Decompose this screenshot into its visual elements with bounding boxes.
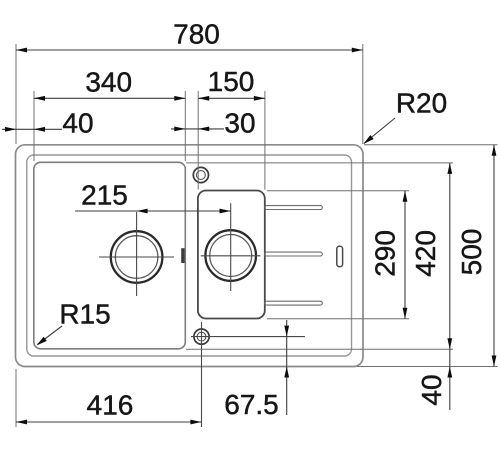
svg-text:215: 215 xyxy=(81,180,128,211)
arrow 416 right xyxy=(190,420,201,425)
arrow 150 right xyxy=(254,96,265,101)
dim line 215 xyxy=(75,210,231,212)
small drain crosshair xyxy=(201,203,261,291)
arrow 67.5 bottom (points up) xyxy=(284,367,289,378)
arrow 780 left xyxy=(16,48,27,53)
ext small bowl right xyxy=(264,91,266,190)
sink rim inner outline xyxy=(27,155,352,356)
leader R20 xyxy=(364,118,395,144)
dim line 416 xyxy=(16,421,201,423)
svg-text:R15: R15 xyxy=(59,299,110,330)
arrow 30 left (points right) xyxy=(174,127,185,132)
small drain inner circle xyxy=(210,235,252,277)
svg-text:416: 416 xyxy=(87,390,134,421)
tap hole xyxy=(193,167,208,182)
ext 500 top xyxy=(364,144,498,146)
ext bowl right xyxy=(184,91,186,161)
arrow 500 top xyxy=(492,145,497,156)
ext bowl left xyxy=(33,91,35,161)
ext sink left top xyxy=(15,44,17,144)
drainer groove 1 xyxy=(265,206,323,210)
main drain crosshair xyxy=(99,212,174,296)
small drain outer circle xyxy=(205,230,256,281)
drainer groove 2 xyxy=(265,252,323,256)
arrow 67.5 top (points down) xyxy=(284,326,289,337)
arrow 340 left xyxy=(34,96,45,101)
arrow 780 right xyxy=(352,48,363,53)
arrow 500 bottom xyxy=(492,356,497,367)
arrow R15 leader xyxy=(37,337,47,346)
dim line 500 xyxy=(493,145,495,367)
main drain outer circle xyxy=(111,231,163,283)
arrow 40 top (outside right, points left) xyxy=(34,127,45,132)
svg-text:30: 30 xyxy=(224,108,255,139)
arrow 340 right xyxy=(174,96,185,101)
drainer groove 3 xyxy=(265,301,323,305)
ext 290 bottom xyxy=(267,318,409,320)
arrow 215 right xyxy=(220,209,231,214)
svg-text:150: 150 xyxy=(208,66,255,97)
bottom drain hole xyxy=(194,329,209,344)
svg-text:780: 780 xyxy=(173,19,220,50)
svg-text:67.5: 67.5 xyxy=(224,389,279,420)
dimension texts xyxy=(59,19,487,421)
dim line 340 xyxy=(34,97,185,99)
bottom hole crosshair vertical xyxy=(201,322,203,427)
leader R15 xyxy=(38,326,63,345)
arrow 420 bottom xyxy=(447,338,452,349)
sink outer outline xyxy=(16,145,364,367)
ext small bowl left xyxy=(197,91,199,190)
ext 500/40 bottom xyxy=(357,366,498,368)
small bowl xyxy=(198,191,265,319)
dim line 150 xyxy=(198,97,265,99)
arrow R20 leader xyxy=(364,135,374,144)
arrow 416 left xyxy=(16,420,27,425)
main bowl xyxy=(34,162,186,348)
svg-text:340: 340 xyxy=(85,67,132,98)
arrow 40 right (points up) xyxy=(447,367,452,378)
arrow 150 left xyxy=(198,96,209,101)
ext 290 top xyxy=(267,190,409,192)
dim line 30 top xyxy=(171,128,224,130)
main drain inner circle xyxy=(115,236,158,279)
drainer overflow slot xyxy=(337,246,343,266)
arrow 290 top xyxy=(403,191,408,202)
arrow 290 bottom xyxy=(403,308,408,319)
dim line 420 xyxy=(449,163,451,349)
ext sink right top xyxy=(362,44,364,144)
ext 420 bottom xyxy=(186,348,453,350)
dim line 40 right xyxy=(449,349,451,410)
ext sink left bottom xyxy=(15,369,17,427)
svg-text:500: 500 xyxy=(456,229,487,276)
svg-text:420: 420 xyxy=(410,230,441,277)
arrow 30 right (points left) xyxy=(198,127,209,132)
bottom hole crosshair horizontal / 67.5 extension xyxy=(191,336,305,338)
svg-text:40: 40 xyxy=(416,374,447,405)
arrow 215 left xyxy=(137,209,148,214)
ext 420 top xyxy=(186,162,453,164)
svg-text:40: 40 xyxy=(62,108,93,139)
dim line 40 top xyxy=(2,128,62,130)
dim line 780 xyxy=(16,49,363,51)
dim line 290 xyxy=(404,191,406,319)
arrow 420 top xyxy=(447,163,452,174)
svg-text:290: 290 xyxy=(370,230,401,277)
svg-text:R20: R20 xyxy=(396,88,447,119)
arrow 40 top (outside left, points right) xyxy=(5,127,16,132)
main bowl overflow tick xyxy=(181,248,184,263)
dim line 67.5 vertical xyxy=(286,320,288,415)
